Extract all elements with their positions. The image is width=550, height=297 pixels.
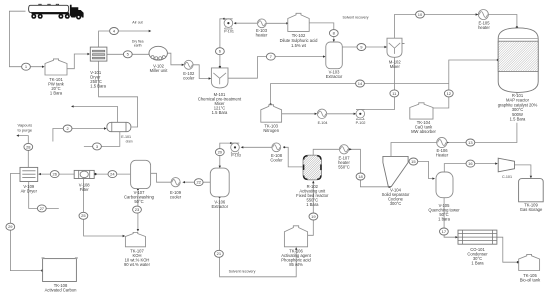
- svg-text:29: 29: [8, 224, 13, 229]
- svg-text:23: 23: [135, 207, 140, 212]
- svg-text:Air out: Air out: [132, 20, 142, 24]
- svg-text:300°C: 300°C: [390, 201, 402, 206]
- svg-text:Activated Carbon: Activated Carbon: [45, 288, 77, 293]
- svg-text:Heater: Heater: [436, 153, 449, 158]
- svg-text:550°C: 550°C: [338, 165, 350, 170]
- svg-text:drain: drain: [126, 140, 133, 144]
- svg-text:1.5 Bara: 1.5 Bara: [510, 117, 526, 122]
- svg-text:P-101: P-101: [224, 29, 234, 33]
- svg-text:24: 24: [110, 171, 115, 176]
- svg-text:26: 26: [52, 171, 57, 176]
- svg-text:18: 18: [358, 174, 363, 179]
- svg-text:21: 21: [217, 251, 222, 256]
- svg-text:12: 12: [447, 91, 452, 96]
- svg-text:1.5 Bara: 1.5 Bara: [90, 84, 106, 89]
- svg-text:Extractor: Extractor: [212, 204, 229, 209]
- svg-text:Solvent recovery: Solvent recovery: [342, 16, 368, 20]
- svg-text:Filter: Filter: [80, 187, 90, 192]
- svg-text:50°C: 50°C: [134, 199, 143, 204]
- svg-text:Bio-oil tank: Bio-oil tank: [520, 278, 541, 283]
- svg-text:90 wt.% water: 90 wt.% water: [124, 262, 151, 267]
- svg-text:22: 22: [196, 180, 201, 185]
- svg-text:cooler: cooler: [183, 76, 195, 81]
- svg-text:27: 27: [40, 206, 45, 211]
- svg-text:heater: heater: [256, 33, 268, 38]
- svg-text:Extractor: Extractor: [326, 74, 343, 79]
- svg-text:15: 15: [411, 159, 416, 164]
- svg-text:1 Bara: 1 Bara: [471, 261, 484, 266]
- svg-text:Solvent recovery: Solvent recovery: [229, 269, 256, 273]
- svg-text:28: 28: [26, 144, 31, 149]
- svg-text:1.5% wt: 1.5% wt: [291, 43, 307, 48]
- svg-text:Miller unit: Miller unit: [150, 68, 169, 73]
- svg-text:P-102: P-102: [356, 121, 366, 125]
- svg-text:C-101: C-101: [502, 175, 512, 179]
- svg-text:1 bara: 1 bara: [438, 217, 450, 222]
- svg-text:E-104: E-104: [318, 121, 328, 125]
- svg-text:earth: earth: [134, 44, 142, 48]
- svg-text:E-101: E-101: [121, 135, 131, 139]
- svg-text:14: 14: [358, 81, 363, 86]
- svg-text:1.5 Bara: 1.5 Bara: [212, 110, 228, 115]
- svg-text:20: 20: [218, 149, 223, 154]
- svg-text:13: 13: [468, 140, 473, 145]
- svg-text:1 Bara: 1 Bara: [306, 202, 319, 207]
- svg-text:25: 25: [81, 213, 86, 218]
- svg-text:heater: heater: [478, 25, 490, 30]
- svg-text:MW absorber: MW absorber: [411, 129, 436, 134]
- svg-text:16: 16: [468, 161, 473, 166]
- svg-text:Nitrogen: Nitrogen: [263, 128, 279, 133]
- svg-text:85 wt%: 85 wt%: [289, 262, 303, 267]
- svg-text:Gas storage: Gas storage: [520, 207, 543, 212]
- svg-text:Cooler: Cooler: [270, 158, 283, 163]
- svg-text:P-103: P-103: [231, 154, 241, 158]
- svg-text:19: 19: [311, 214, 316, 219]
- svg-text:to purge: to purge: [17, 128, 32, 133]
- svg-text:10: 10: [418, 12, 423, 17]
- svg-text:Air Dryer: Air Dryer: [21, 189, 38, 194]
- svg-text:17: 17: [442, 229, 447, 234]
- svg-text:1 Bara: 1 Bara: [50, 91, 63, 96]
- svg-text:Mixer: Mixer: [390, 64, 401, 69]
- svg-text:cooler: cooler: [170, 195, 182, 200]
